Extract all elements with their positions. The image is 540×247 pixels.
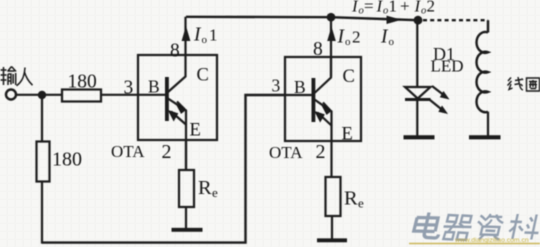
wire OTA2 base [285, 94, 312, 96]
wire Re1 to ground [185, 207, 187, 229]
resistor 180 horizontal [62, 90, 101, 102]
watermark 电器资料 [412, 213, 540, 241]
svg-text:E: E [342, 125, 353, 145]
op-amp U2 OTA box [285, 57, 361, 141]
svg-text:e: e [358, 196, 364, 211]
resistor 180 vertical [37, 142, 50, 182]
svg-text:o: o [383, 6, 388, 17]
ground (LED) [404, 135, 435, 139]
svg-text:180: 180 [52, 149, 82, 171]
svg-text:2: 2 [352, 28, 361, 47]
current arrow Io on bus [387, 16, 402, 24]
wire junction to LED [416, 20, 418, 87]
current arrow Io1 [182, 26, 191, 41]
svg-text:8: 8 [170, 41, 180, 62]
svg-text:+: + [400, 0, 410, 16]
wire Re2 to ground [331, 216, 333, 240]
wire resistor to bottom bus [41, 182, 43, 244]
svg-text:R: R [344, 188, 358, 210]
inductor coil 线圈 [477, 32, 488, 112]
resistor Re1 [179, 170, 194, 207]
svg-text:o: o [421, 6, 426, 17]
LED emission arrows [432, 86, 445, 96]
ground (coil) [469, 135, 501, 139]
current arrow Io2 [327, 27, 336, 42]
svg-text:C: C [343, 67, 355, 87]
svg-text:LED: LED [431, 57, 464, 76]
ground (OTA2) [317, 238, 347, 242]
wire dashed bus to coil [423, 19, 488, 21]
ground (OTA1) [172, 228, 203, 232]
svg-text:E: E [190, 121, 201, 141]
input terminal circle [6, 90, 16, 100]
svg-text:1: 1 [389, 0, 398, 16]
wire input to resistor [17, 94, 63, 96]
svg-text:3: 3 [272, 76, 281, 96]
transistor Q1 [165, 17, 187, 170]
svg-text:1: 1 [209, 26, 218, 45]
diode D1 LED [405, 87, 431, 99]
op-amp U1 OTA box [138, 55, 217, 140]
node junction dot (LED branch) [414, 16, 423, 25]
node junction dot on bus (OTA2 collector) [327, 13, 336, 22]
svg-text:o: o [359, 6, 364, 17]
svg-text:e: e [212, 185, 218, 200]
wire junction down to vertical resistor [41, 95, 43, 142]
transistor Q2 [312, 57, 333, 177]
svg-text:C: C [197, 66, 209, 86]
node junction dot [38, 91, 46, 99]
svg-text:=: = [364, 0, 374, 16]
svg-text:2: 2 [316, 141, 326, 163]
formula Io = Io1 + Io2 [351, 0, 435, 17]
resistor Re2 [326, 177, 341, 216]
svg-text:o: o [345, 36, 351, 48]
svg-text:o: o [389, 36, 395, 48]
svg-text:2: 2 [162, 141, 172, 163]
svg-text:OTA: OTA [269, 143, 303, 162]
svg-text:R: R [198, 177, 212, 199]
wire top bus [186, 17, 418, 20]
svg-text:B: B [148, 77, 160, 97]
node 输入 input label [1, 67, 33, 86]
wire bottom bus [42, 95, 285, 243]
node 线圈 coil label [508, 77, 540, 91]
svg-text:OTA: OTA [111, 142, 145, 161]
svg-text:180: 180 [68, 72, 97, 93]
svg-text:o: o [202, 34, 208, 46]
svg-text:2: 2 [427, 0, 436, 16]
wire OTA1 pin2 to Re1 [185, 140, 187, 170]
svg-text:3: 3 [124, 78, 134, 99]
wire resistor to OTA1 pin3 [101, 94, 165, 96]
wire bus to OTA2 pin 8 [330, 17, 332, 76]
